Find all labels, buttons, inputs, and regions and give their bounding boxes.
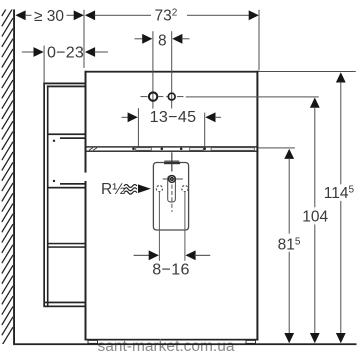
svg-text:104: 104 (302, 209, 328, 226)
svg-text:13−45: 13−45 (150, 108, 197, 126)
svg-text:R½: R½ (101, 181, 125, 198)
svg-text:0−23: 0−23 (47, 44, 84, 62)
svg-text:8−16: 8−16 (152, 261, 189, 279)
svg-text:≥ 30: ≥ 30 (34, 8, 64, 25)
svg-text:8: 8 (158, 32, 167, 49)
svg-text:sant-market.com.ua: sant-market.com.ua (98, 338, 235, 355)
